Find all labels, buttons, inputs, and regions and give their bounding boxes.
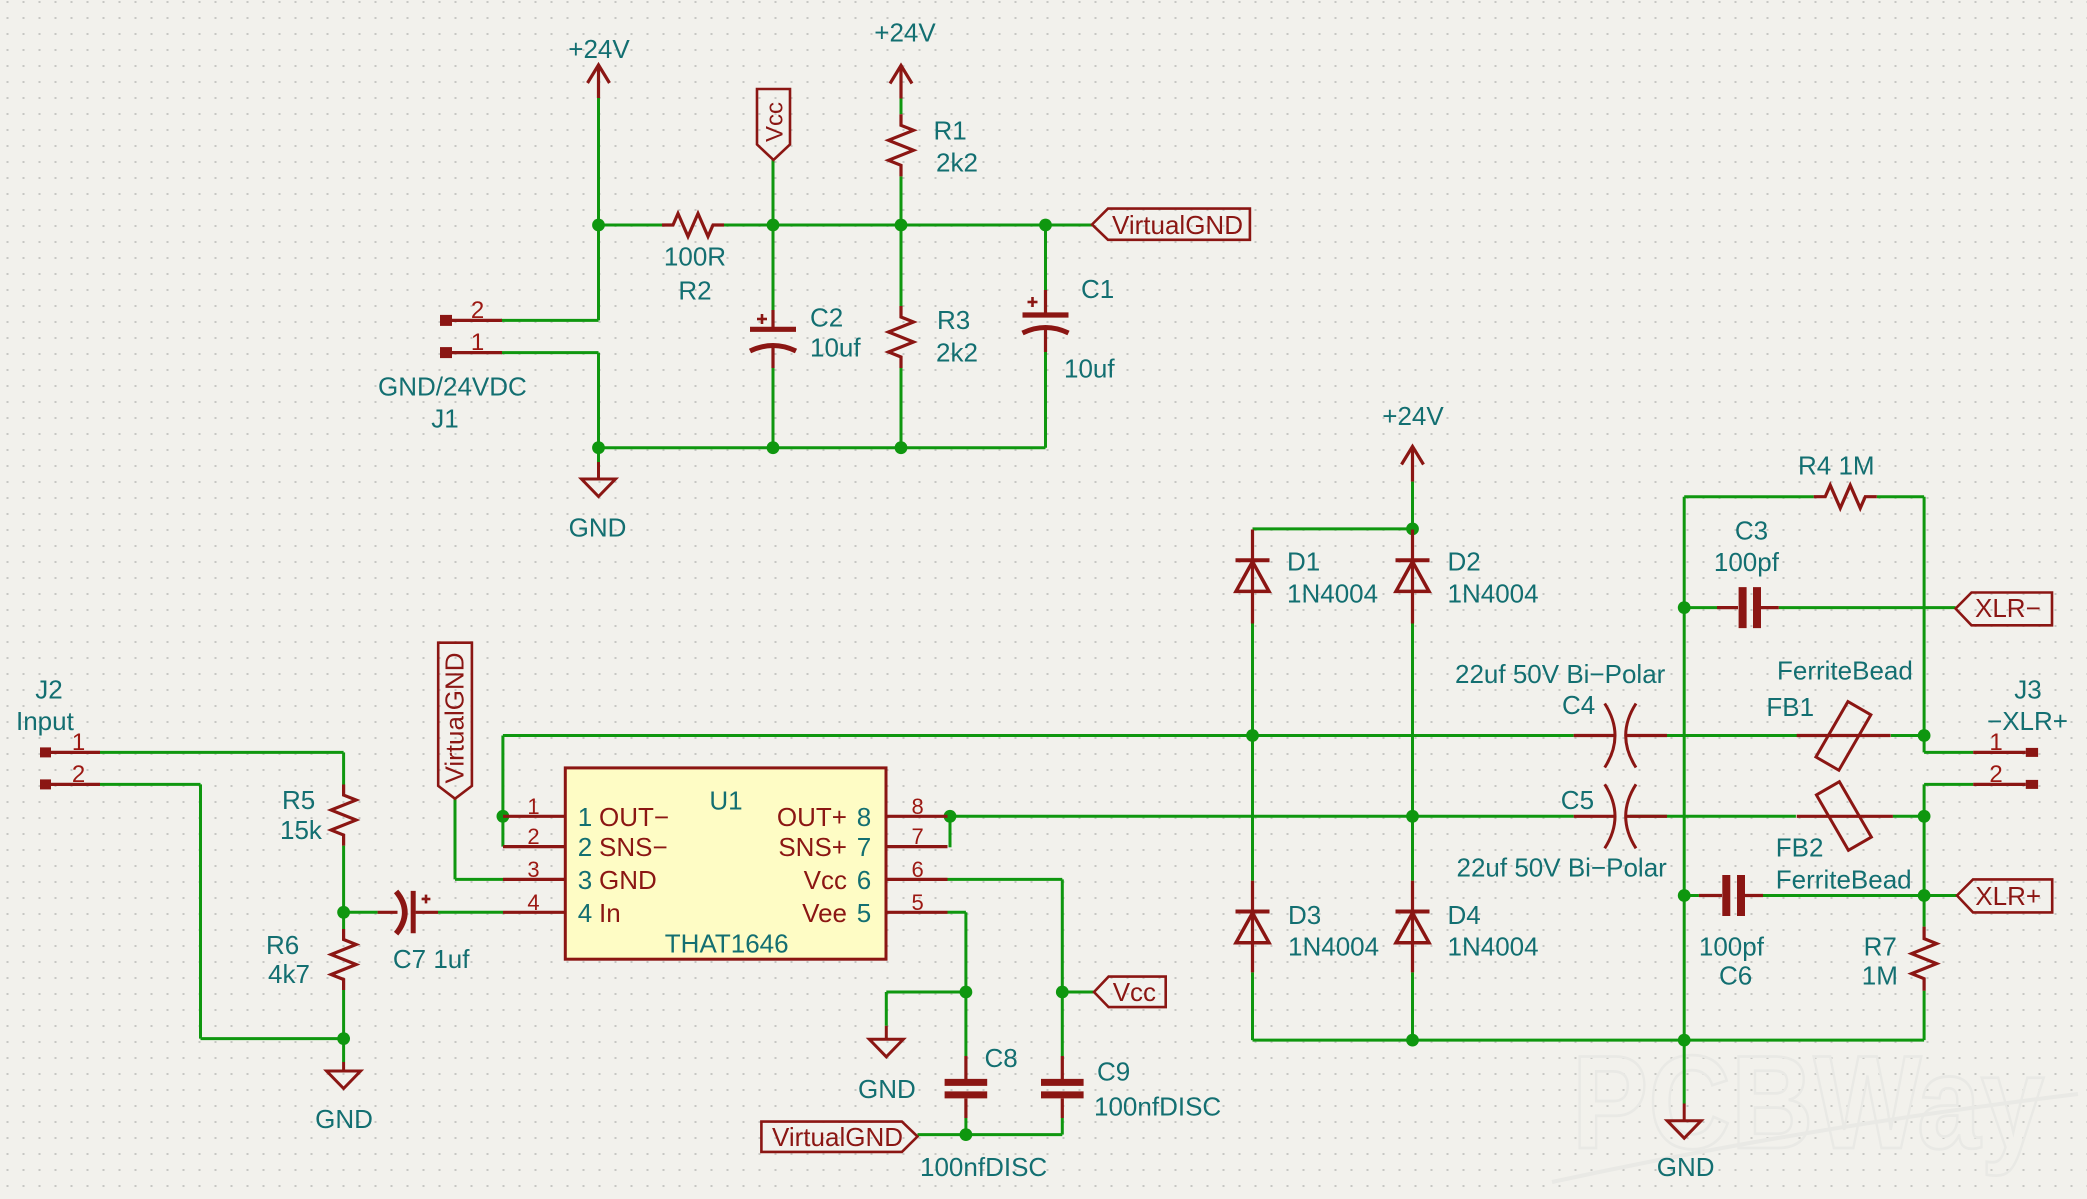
svg-text:PCBWay: PCBWay xyxy=(1572,1029,2044,1177)
svg-text:FerriteBead: FerriteBead xyxy=(1777,656,1913,686)
svg-text:5: 5 xyxy=(911,890,923,915)
svg-text:4: 4 xyxy=(578,898,592,928)
svg-text:FB1: FB1 xyxy=(1766,692,1814,722)
svg-text:C7 1uf: C7 1uf xyxy=(393,944,470,974)
svg-text:10uf: 10uf xyxy=(810,333,861,363)
svg-text:+24V: +24V xyxy=(1382,401,1444,431)
svg-text:R3: R3 xyxy=(937,305,970,335)
svg-text:1: 1 xyxy=(471,329,484,356)
svg-text:1: 1 xyxy=(578,802,592,832)
svg-text:C6: C6 xyxy=(1719,961,1752,991)
svg-text:7: 7 xyxy=(911,824,923,849)
svg-text:R7: R7 xyxy=(1864,932,1897,962)
svg-text:C3: C3 xyxy=(1735,515,1768,545)
svg-text:XLR+: XLR+ xyxy=(1975,881,2041,911)
svg-text:6: 6 xyxy=(857,865,871,895)
svg-text:Input: Input xyxy=(16,706,75,736)
svg-text:100pf: 100pf xyxy=(1699,931,1765,961)
svg-text:8: 8 xyxy=(911,794,923,819)
svg-text:1M: 1M xyxy=(1862,961,1898,991)
svg-text:2: 2 xyxy=(527,824,539,849)
svg-text:1: 1 xyxy=(527,794,539,819)
svg-text:C4: C4 xyxy=(1562,690,1595,720)
svg-text:GND: GND xyxy=(1657,1152,1715,1182)
svg-text:SNS−: SNS− xyxy=(599,832,668,862)
svg-text:Vee: Vee xyxy=(802,898,847,928)
svg-text:XLR−: XLR− xyxy=(1975,593,2041,623)
svg-text:SNS+: SNS+ xyxy=(778,832,847,862)
svg-text:VirtualGND: VirtualGND xyxy=(440,652,470,783)
svg-text:8: 8 xyxy=(857,802,871,832)
svg-text:2: 2 xyxy=(578,832,592,862)
svg-text:J1: J1 xyxy=(431,404,458,434)
svg-text:D4: D4 xyxy=(1448,900,1481,930)
svg-text:1N4004: 1N4004 xyxy=(1448,578,1539,608)
svg-text:+24V: +24V xyxy=(568,34,630,64)
svg-text:D2: D2 xyxy=(1448,547,1481,577)
svg-text:3: 3 xyxy=(578,865,592,895)
svg-text:10uf: 10uf xyxy=(1064,354,1115,384)
svg-text:Vcc: Vcc xyxy=(804,865,847,895)
svg-text:FB2: FB2 xyxy=(1776,833,1824,863)
svg-text:R5: R5 xyxy=(282,785,315,815)
svg-text:1N4004: 1N4004 xyxy=(1288,931,1379,961)
svg-text:R6: R6 xyxy=(266,930,299,960)
svg-text:1N4004: 1N4004 xyxy=(1287,578,1378,608)
svg-text:4: 4 xyxy=(527,890,539,915)
svg-text:100nfDISC: 100nfDISC xyxy=(920,1152,1047,1182)
svg-text:D3: D3 xyxy=(1288,900,1321,930)
svg-text:100pf: 100pf xyxy=(1714,547,1780,577)
svg-text:Vcc: Vcc xyxy=(762,102,789,142)
svg-text:15k: 15k xyxy=(280,815,323,845)
svg-text:R1: R1 xyxy=(934,116,967,146)
svg-text:R2: R2 xyxy=(678,276,711,306)
svg-text:5: 5 xyxy=(857,898,871,928)
svg-text:+24V: +24V xyxy=(874,18,936,48)
svg-text:22uf 50V Bi−Polar: 22uf 50V Bi−Polar xyxy=(1457,853,1668,883)
svg-text:1: 1 xyxy=(72,729,85,756)
svg-text:Vcc: Vcc xyxy=(1113,977,1156,1007)
svg-text:2k2: 2k2 xyxy=(936,148,978,178)
svg-text:In: In xyxy=(599,898,621,928)
svg-text:100nfDISC: 100nfDISC xyxy=(1094,1092,1221,1122)
svg-text:VirtualGND: VirtualGND xyxy=(1112,210,1243,240)
svg-text:4k7: 4k7 xyxy=(268,959,310,989)
svg-text:R4 1M: R4 1M xyxy=(1798,450,1875,480)
svg-text:1: 1 xyxy=(1989,729,2002,756)
svg-text:D1: D1 xyxy=(1287,547,1320,577)
svg-text:100R: 100R xyxy=(664,242,726,272)
svg-text:2: 2 xyxy=(471,297,484,324)
svg-text:C1: C1 xyxy=(1081,274,1114,304)
svg-text:FerriteBead: FerriteBead xyxy=(1776,864,1912,894)
svg-text:VirtualGND: VirtualGND xyxy=(772,1122,903,1152)
svg-text:GND: GND xyxy=(569,513,627,543)
svg-text:1N4004: 1N4004 xyxy=(1448,931,1539,961)
svg-text:OUT+: OUT+ xyxy=(777,802,847,832)
svg-text:J2: J2 xyxy=(35,675,62,705)
svg-text:C2: C2 xyxy=(810,303,843,333)
svg-text:THAT1646: THAT1646 xyxy=(665,929,789,959)
svg-text:C8: C8 xyxy=(985,1043,1018,1073)
svg-text:C5: C5 xyxy=(1561,785,1594,815)
svg-text:OUT−: OUT− xyxy=(599,802,669,832)
svg-text:GND: GND xyxy=(599,865,657,895)
svg-text:2: 2 xyxy=(72,761,85,788)
svg-text:7: 7 xyxy=(857,832,871,862)
svg-text:2k2: 2k2 xyxy=(936,338,978,368)
svg-text:GND/24VDC: GND/24VDC xyxy=(378,372,527,402)
svg-text:J3: J3 xyxy=(2014,675,2041,705)
svg-text:U1: U1 xyxy=(709,786,742,816)
svg-text:22uf 50V Bi−Polar: 22uf 50V Bi−Polar xyxy=(1455,659,1666,689)
svg-text:GND: GND xyxy=(858,1074,916,1104)
svg-text:6: 6 xyxy=(911,857,923,882)
svg-text:C9: C9 xyxy=(1097,1057,1130,1087)
svg-text:GND: GND xyxy=(315,1104,373,1134)
svg-text:2: 2 xyxy=(1989,761,2002,788)
svg-text:3: 3 xyxy=(527,857,539,882)
